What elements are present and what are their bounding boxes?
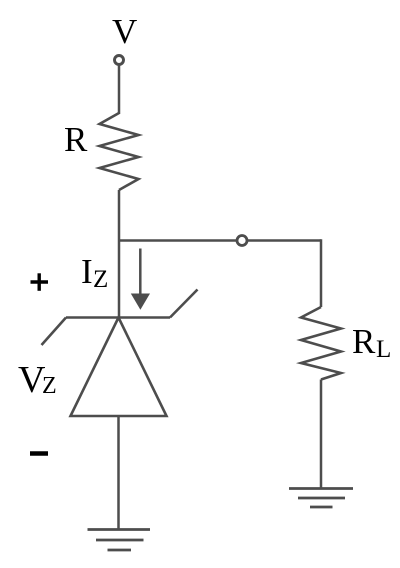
wire V terminal to resistor R — [118, 65, 121, 114]
plus sign — [31, 280, 49, 283]
svg-text:I: I — [81, 252, 93, 291]
svg-text:L: L — [376, 336, 391, 363]
svg-text:R: R — [64, 120, 88, 159]
svg-text:Z: Z — [93, 266, 108, 293]
minus sign — [30, 451, 48, 456]
wire corner down to RL — [320, 239, 323, 307]
wire junction to load branch — [119, 239, 321, 242]
ground (right) — [289, 487, 353, 490]
ground (left) — [88, 528, 151, 531]
wire resistor R to zener bar (through junction) — [118, 190, 121, 318]
zener diode D1: triangle — [71, 318, 167, 417]
terminal (open circle) at V — [115, 56, 124, 65]
wire RL to ground — [320, 380, 323, 489]
zener diode D1: cathode bar with bent ends — [66, 316, 170, 319]
svg-text:R: R — [352, 322, 376, 361]
resistor RL — [301, 307, 341, 380]
resistor R — [100, 113, 139, 190]
svg-text:Z: Z — [42, 373, 57, 399]
svg-text:V: V — [112, 12, 137, 51]
output terminal (open circle) — [237, 236, 247, 246]
wire diode to ground — [117, 416, 120, 529]
current arrow IZ — [139, 249, 142, 296]
